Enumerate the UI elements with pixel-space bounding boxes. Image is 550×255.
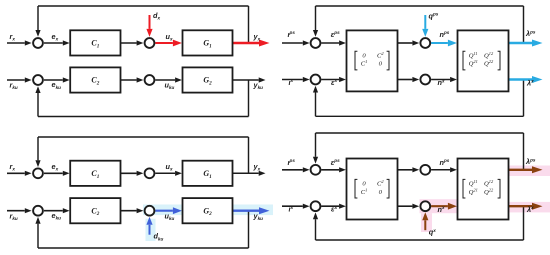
wire: right feedback tap row 2 (bottom-left) [248,211,250,248]
summing junction 2 row 2 (bottom-left) [145,206,155,216]
wire: controller output into summing junction (top-left) [121,42,137,44]
block C2 (bottom-left) [70,198,120,223]
disturbance arrow d_ku into summing junction (bottom-left) [149,225,151,235]
wire: reference input r_ku (bottom-left) [7,210,25,212]
wire: plant output y_ku (top-left) [233,79,259,81]
wire: plant output y_x (bottom-left) [233,172,259,174]
wire: error signal e_ku into block C2 (bottom-left) [44,210,63,212]
wire: feedback rise into summing junction row 2 (top-right) [315,93,317,117]
disturbance arrow q^x into summing junction (bottom-right) [424,220,426,230]
highlight band behind output arrow y_ku (bottom-left) [222,205,273,216]
wire: error epsilon^x into matrix block C (top-right) [321,79,339,81]
wire: error epsilon^ps into matrix block C (top-right) [321,42,339,44]
wire: feedback rise into summing junction row 2 (bottom-right) [315,219,317,240]
wire: plant output y_ku (bottom-left) [233,209,260,211]
wire: top feedback line row 1 (bottom-left) [38,136,249,138]
summing junction 2 row 1 (top-right) [420,38,430,48]
wire: plant output y_x (top-left) [233,42,260,44]
block G2 (top-left) [183,67,233,92]
wire: bottom feedback line row 2 (top-right) [316,115,524,117]
wire: bottom feedback line row 2 (bottom-left) [38,247,249,249]
wire: feedback rise into summing junction row 2 (bottom-left) [37,224,39,248]
block G1 (top-left) [183,30,233,55]
wire: right feedback tap row 2 (bottom-right) [523,206,525,240]
wire: error signal e_ku into block C2 (top-left) [44,79,63,81]
wire: signal n^ps into matrix block Q (bottom-right) [431,169,450,171]
wire: feedback drop into summing junction row 1 (bottom-right) [315,133,317,157]
matrix block [Q11 Q12; Q21 Q22] (top-right) [458,30,509,91]
summing junction 1 row 1 (bottom-left) [33,168,43,178]
wire: input iota^ps (bottom-right) [282,169,303,171]
highlight band behind disturbance arrow d_ku (bottom-left) [146,219,156,241]
wire: error epsilon^x into matrix block C (bottom-right) [321,205,339,207]
wire: input iota^x (bottom-right) [282,205,303,207]
matrix block [0 C2; C1 0] (top-right) [347,30,398,91]
wire: reference input r_x (bottom-left) [7,172,25,174]
disturbance arrow q^ps into summing junction (top-right) [424,15,426,29]
highlight band behind control signal u_ku (bottom-left) [143,205,193,216]
wire: feedback drop into summing junction row 1 (bottom-left) [37,137,39,160]
wire: output lambda^ps (top-right) [509,42,533,44]
block G1 (bottom-left) [183,161,233,186]
matrix block [Q11 Q12; Q21 Q22] (bottom-right) [458,159,509,220]
summing junction 1 row 2 (bottom-left) [33,206,43,216]
summing junction 1 row 2 (top-right) [311,75,321,85]
wire: matrix block C output into summing junction (top-right) [398,79,413,81]
summing junction 2 row 1 (top-left) [145,38,155,48]
wire: control signal u_x into plant G1 (bottom-left) [155,172,175,174]
wire: matrix block C output into summing junction (bottom-right) [398,205,413,207]
summing junction 1 row 1 (top-left) [33,38,43,48]
matrix block [0 C2; C1 0] (bottom-right) [347,159,398,220]
wire: reference input r_x (top-left) [7,42,25,44]
wire: error signal e_x into block C1 (top-left) [44,42,63,44]
highlight band behind signal n^x (bottom-right) [420,199,465,213]
wire: feedback drop into summing junction row 1 (top-left) [37,6,39,30]
wire: signal n^x into matrix block Q (bottom-right) [431,205,448,207]
block G2 (bottom-left) [183,198,233,223]
wire: bottom feedback line row 2 (top-left) [38,116,249,118]
wire: controller output into summing junction (bottom-left) [121,172,137,174]
wire: control signal u_x into plant G1 (top-left) [155,42,173,44]
wire: feedback rise into summing junction row 2 (top-left) [37,93,39,117]
summing junction 2 row 1 (bottom-left) [145,168,155,178]
summing junction 2 row 2 (top-right) [420,75,430,85]
wire: top feedback line row 1 (top-right) [316,5,524,7]
summing junction 2 row 2 (top-left) [145,75,155,85]
wire: reference input r_ku (top-left) [7,79,25,81]
highlight band behind disturbance arrow q^x (bottom-right) [421,213,432,232]
highlight band behind output arrow lambda^ps (bottom-right) [502,166,550,177]
wire: right feedback tap row 1 (top-left) [248,6,250,43]
wire: feedback drop into summing junction row 1 (top-right) [315,6,317,30]
wire: output lambda^ps (bottom-right) [509,169,533,171]
wire: output lambda^x (bottom-right) [509,205,533,207]
wire: error signal e_x into block C1 (bottom-left) [44,172,63,174]
wire: error epsilon^ps into matrix block C (bottom-right) [321,169,339,171]
wire: top feedback line row 1 (bottom-right) [316,132,524,134]
wire: control signal u_ku into plant G2 (top-left) [155,79,175,81]
block C1 (bottom-left) [70,161,120,186]
summing junction 1 row 1 (bottom-right) [311,165,321,175]
summing junction 1 row 1 (top-right) [311,38,321,48]
block C1 (top-left) [70,30,120,55]
wire: right feedback tap row 1 (top-right) [523,6,525,43]
summing junction 2 row 2 (bottom-right) [420,201,430,211]
summing junction 1 row 2 (bottom-right) [311,201,321,211]
summing junction 1 row 2 (top-left) [33,75,43,85]
wire: control signal u_ku into plant G2 (bottom-left) [155,210,173,212]
wire: matrix block C output into summing junction (bottom-right) [398,169,413,171]
wire: controller output into summing junction (top-left) [121,79,137,81]
wire: input iota^ps (top-right) [282,42,303,44]
wire: right feedback tap row 2 (top-right) [523,80,525,117]
wire: top feedback line row 1 (top-left) [38,5,249,7]
wire: output lambda^x (top-right) [509,78,533,80]
wire: controller output into summing junction (bottom-left) [121,210,137,212]
wire: right feedback tap row 1 (bottom-right) [523,133,525,170]
wire: right feedback tap row 2 (top-left) [248,80,250,117]
wire: matrix block C output into summing junction (top-right) [398,42,413,44]
highlight band behind output arrow lambda^x (bottom-right) [502,202,550,213]
wire: signal n^ps into matrix block Q (top-right) [431,42,448,44]
block C2 (top-left) [70,67,120,92]
disturbance arrow d_x into summing junction (top-left) [149,15,151,29]
wire: input iota^x (top-right) [282,79,303,81]
wire: right feedback tap row 1 (bottom-left) [248,137,250,173]
wire: signal n^x into matrix block Q (top-right) [431,79,450,81]
summing junction 2 row 1 (bottom-right) [420,165,430,175]
wire: bottom feedback line row 2 (bottom-right) [316,239,524,241]
